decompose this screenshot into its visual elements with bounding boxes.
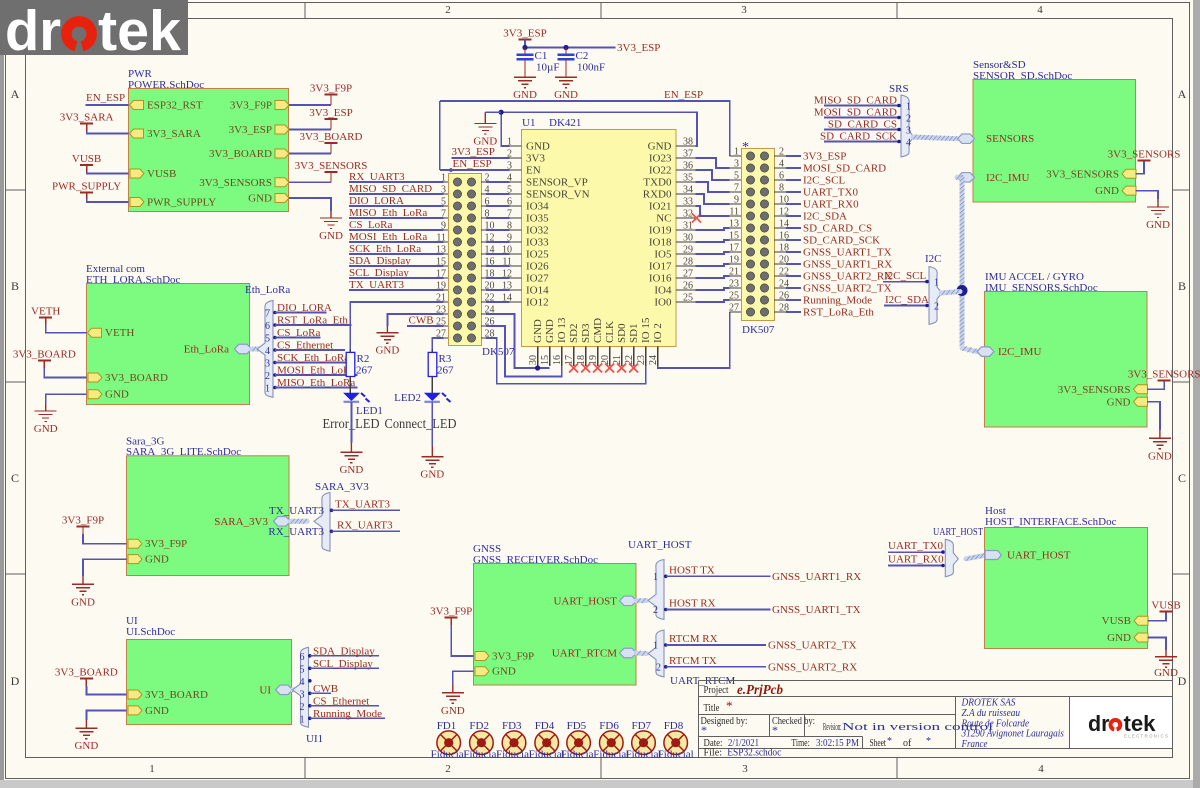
svg-text:1: 1 [653,572,658,583]
wire U1 pin 30 to right header pin 15 [695,240,729,242]
svg-text:C: C [1178,471,1186,485]
wire header pin 16 to U1 pin 11 [486,265,509,267]
harness entry 3 CWB [300,683,339,701]
power port VUSB (Host) [1151,600,1180,612]
capacitor C2 100nF [558,48,606,78]
harness cable I2C to junction [941,292,960,294]
svg-text:3: 3 [300,689,305,700]
svg-text:FD2: FD2 [469,720,489,732]
harness bundle SRS [889,83,914,157]
wire 3V3_SENSORS power [1136,161,1144,174]
svg-text:1: 1 [734,147,739,158]
harness bundle Eth_LoRa [245,284,290,397]
svg-text:GND: GND [105,389,129,401]
connector DK507 (left header) body [449,174,482,346]
svg-text:DK507: DK507 [742,324,775,336]
harness entry 7 DIO_LORA [265,302,332,320]
svg-text:7: 7 [507,209,512,220]
wire EN_ESP to PWR [86,104,129,106]
svg-text:3V3_BOARD: 3V3_BOARD [209,148,272,160]
sheet symbol Host (HOST_INTERFACE.SchDoc) [985,505,1148,649]
svg-text:3V3_ESP: 3V3_ESP [803,151,846,163]
net label 3V3_ESP at U1 pin2 [452,146,510,158]
wire 3V3_SARA [87,131,129,134]
svg-text:*: * [742,140,749,155]
connector DK507 (right header) pin circles [746,152,768,316]
svg-text:I2C_SDA: I2C_SDA [885,294,929,306]
resistor R2 267 [346,349,373,393]
svg-text:GND: GND [248,193,272,205]
sheet entry 3V3_F9P (Sara) [128,538,187,550]
svg-text:4: 4 [300,677,305,688]
svg-text:GND: GND [145,554,169,566]
svg-text:D: D [11,674,20,688]
svg-text:GNSS_UART1_TX: GNSS_UART1_TX [772,604,861,616]
wire GNSS GND [453,671,474,684]
fiducial FD6 [593,720,629,761]
sheet symbol IMU ACCEL / GYRO (IMU_SENSORS.SchDoc) [985,271,1148,427]
wire 3V3_ESP rail [524,40,526,48]
svg-text:SENSORS: SENSORS [986,133,1034,145]
sheet entry 3V3_SARA [130,128,201,140]
svg-text:16: 16 [552,355,563,365]
fiducial FD3 [496,720,532,761]
sheet entry 3V3_SENSORS (IMU) [1058,384,1148,396]
wire header pin27 to R3 [432,338,443,349]
harness cable SRS to SENSORS [913,137,957,139]
svg-text:GND: GND [1146,219,1170,231]
svg-text:FD7: FD7 [632,720,652,732]
svg-text:267: 267 [437,365,454,377]
svg-text:GND: GND [532,319,544,343]
svg-text:UART_TX0: UART_TX0 [888,540,943,552]
harness entry 2 HOST RX / net GNSS_UART1_TX [653,598,861,617]
svg-text:UART_RTCM: UART_RTCM [552,648,618,660]
power port 3V3_SENSORS (Sensor&SD) [1108,149,1181,161]
svg-text:tek: tek [1124,711,1157,736]
ground U1 top GND [473,112,497,147]
svg-text:19: 19 [729,255,739,266]
sheet entry GND (Sensor&SD) [1095,185,1136,197]
svg-text:I2C_SDA: I2C_SDA [803,211,847,223]
svg-text:Running_Mode: Running_Mode [313,708,382,720]
svg-text:3V3: 3V3 [526,153,545,165]
svg-text:4: 4 [1037,4,1043,16]
svg-text:38: 38 [683,137,693,148]
svg-text:3:02:15 PM: 3:02:15 PM [816,738,859,749]
svg-text:25: 25 [436,317,446,328]
wire header pin23 to GND [387,314,443,326]
harness junction dot I2C [957,285,968,296]
svg-text:2: 2 [265,371,270,382]
sheet entry 3V3_SENSORS (right) [199,177,289,189]
svg-text:3V3_F9P: 3V3_F9P [430,606,472,618]
wire UI GND [86,710,126,720]
svg-text:29: 29 [683,245,693,256]
svg-text:TXD0: TXD0 [643,177,672,189]
svg-text:3V3_BOARD: 3V3_BOARD [300,131,363,143]
svg-text:File:: File: [704,748,723,759]
svg-text:4: 4 [265,346,270,357]
svg-text:HOST RX: HOST RX [669,598,716,610]
svg-text:RX_UART3: RX_UART3 [337,519,393,531]
sheet entry PWR_SUPPLY [130,197,216,209]
wire header pin 22 to U1 pin 14 [486,301,509,303]
no-connect X on U1 pins 17-22 [569,364,578,373]
net label Running_Mode / wire from header pin 26 [786,295,872,307]
svg-text:21: 21 [436,293,446,304]
harness entry 2 MOSI_Eth_LoRa [265,365,358,383]
svg-text:6: 6 [779,171,784,182]
wire U1 pin 28 to right header pin 19 [695,264,729,266]
connector DK507 (right header) body [742,149,775,321]
harness bundle SARA_3V3 [314,481,369,551]
wire U1 pin 36 to right header pin 5 [695,170,729,180]
power port 3V3_SENSORS [295,160,368,183]
svg-text:2: 2 [934,302,939,313]
wire PWR 3V3_SENSORS out [289,181,331,183]
svg-text:UART_HOST: UART_HOST [933,526,983,538]
svg-text:SDA_Display: SDA_Display [313,645,375,657]
net label SDA_Display / wire to header pin 15 [349,255,444,267]
wire header pin 14 to U1 pin 10 [486,253,509,255]
svg-text:GND: GND [1107,632,1131,644]
svg-text:31: 31 [683,221,693,232]
wire PWR_SUPPLY [87,199,129,202]
svg-text:SCK_Eth_LoRa: SCK_Eth_LoRa [277,352,349,364]
svg-text:RTCM TX: RTCM TX [669,655,717,667]
svg-text:21: 21 [729,267,739,278]
svg-text:3V3_ESP: 3V3_ESP [503,28,546,40]
wire header pin 12 to U1 pin 9 [486,241,509,243]
svg-text:CS_Ethernet: CS_Ethernet [313,695,369,707]
svg-text:34: 34 [683,185,693,196]
svg-text:3V3_BOARD: 3V3_BOARD [105,372,168,384]
svg-text:DROTEK SAS: DROTEK SAS [961,698,1017,709]
svg-text:4: 4 [1038,763,1044,775]
svg-text:VETH: VETH [105,327,134,339]
power port 3V3_SENSORS (IMU) [1128,369,1200,381]
wire U1 pin 27 to right header pin 21 [695,276,729,278]
wire header pin 8 to U1 pin 7 [486,217,509,219]
wire right header pin27 to U1 IO2 [658,312,730,368]
svg-text:IO 13: IO 13 [556,317,568,343]
sheet symbol Sara_3G (SARA_3G_LITE.SchDoc) [126,436,289,576]
svg-text:2: 2 [656,662,661,673]
svg-text:IO25: IO25 [526,249,549,261]
svg-text:IO21: IO21 [649,201,672,213]
wire header pin 4 to U1 pin 5 [486,193,509,195]
svg-text:Fiducial: Fiducial [658,749,694,761]
harness entry 6 SDA_Display [300,645,380,663]
svg-text:3V3_SENSORS: 3V3_SENSORS [295,160,368,172]
svg-text:SCL_Display: SCL_Display [313,658,373,670]
junction dot pin1 gnd [499,110,504,115]
left header even pin stubs and numbers [481,173,495,340]
harness entry I2C_IMU (IMU) [977,346,1041,358]
svg-text:Running_Mode: Running_Mode [803,295,872,307]
sheet entry 3V3_F9P (right) [230,100,289,112]
sheet entry VUSB (Host) [1102,615,1148,627]
harness entry SARA_3V3 [214,516,290,528]
svg-text:1: 1 [906,102,911,113]
net label MISO_SD_CARD / wire to header pin 3 [349,183,444,195]
svg-text:10µF: 10µF [536,62,559,74]
svg-text:CS_LoRa: CS_LoRa [277,327,321,339]
net label MISO_Eth_LoRa / wire to header pin 7 [349,207,444,219]
svg-text:Checked by:: Checked by: [772,716,815,727]
fiducial FD5 [561,720,597,761]
net label UART_RX0 / harness entry 2 [888,554,954,573]
right header even pin stubs and numbers [774,147,789,314]
harness entry 3 SCK_Eth_LoRa [265,352,351,370]
power port 3V3_BOARD [300,131,363,154]
svg-text:3V3_BOARD: 3V3_BOARD [13,349,76,361]
svg-text:GND: GND [145,705,169,717]
svg-text:TX_UART3: TX_UART3 [335,498,390,510]
resistor R3 267 [428,349,454,393]
power port PWR_SUPPLY [52,180,121,200]
svg-text:GND: GND [1148,450,1172,462]
svg-text:11: 11 [729,207,739,218]
svg-text:3V3_ESP: 3V3_ESP [229,124,272,136]
svg-text:37: 37 [683,149,693,160]
harness entry UI [259,684,292,696]
svg-text:GNSS_UART1_RX: GNSS_UART1_RX [772,571,861,583]
svg-text:EN: EN [526,165,541,177]
svg-text:4: 4 [507,173,512,184]
svg-text:Project: Project [704,685,729,696]
power port 3V3_BOARD [13,349,76,369]
svg-text:IO35: IO35 [526,213,549,225]
net label EN_ESP [86,92,125,104]
wire header pin 10 to U1 pin 8 [486,229,509,231]
sheet entry 3V3_F9P (GNSS) [475,651,534,663]
svg-text:GNSS_UART2_RX: GNSS_UART2_RX [768,661,857,673]
wire U1 pin 25 to right header pin 25 [695,300,729,302]
svg-text:3: 3 [906,126,911,137]
wire U1 pin 37 to right header pin 3 [695,158,729,168]
svg-text:U1: U1 [522,117,535,129]
svg-text:UART_RX0: UART_RX0 [888,554,944,566]
svg-text:UART_HOST: UART_HOST [628,539,692,551]
svg-text:15: 15 [540,355,551,365]
svg-text:GND: GND [492,666,516,678]
svg-text:R3: R3 [439,353,452,365]
harness bundle UI1 [293,647,324,745]
svg-text:5: 5 [734,171,739,182]
ground IMU GND [1148,430,1172,462]
title block logo cell [1070,697,1172,748]
net label CWB [407,315,444,327]
svg-text:27: 27 [729,303,739,314]
svg-text:35: 35 [683,173,693,184]
sheet entry GND [88,389,129,401]
svg-text:IO17: IO17 [649,261,672,273]
ground UI GND [74,720,98,752]
wire header pin24 to U1 GND pins [486,314,550,368]
sheet entry GND (UI) [128,705,169,717]
svg-text:HOST TX: HOST TX [669,564,715,576]
net label RST_LoRa_Eth / wire from header pin 28 [786,307,874,319]
harness entry Eth_LoRa [184,344,252,356]
svg-text:tek: tek [98,0,181,63]
svg-text:2: 2 [445,4,451,16]
svg-text:IO26: IO26 [526,261,549,273]
wire IMU GND [1147,402,1160,430]
harness bundle UART_RTCM [648,630,736,687]
svg-text:PWR_SUPPLY: PWR_SUPPLY [52,180,121,192]
wire header pin21 to R2 [350,302,443,349]
svg-text:3V3_BOARD: 3V3_BOARD [55,667,118,679]
drotek logo (top-left) [0,0,188,55]
svg-text:SRS: SRS [889,83,909,95]
svg-text:GND: GND [648,141,672,153]
svg-text:3: 3 [265,359,270,370]
svg-text:GND: GND [74,740,98,752]
sheet entry 3V3_BOARD [88,372,168,384]
svg-text:I2C_SCL: I2C_SCL [803,175,845,187]
wire 3V3_BOARD [44,368,86,378]
svg-text:IO33: IO33 [526,237,549,249]
svg-text:2: 2 [300,702,305,713]
svg-text:33: 33 [683,197,693,208]
sheet entry GND (Host) [1107,632,1148,644]
left header odd pin stubs and numbers [436,173,448,340]
power port 3V3_F9P [310,83,352,106]
svg-text:dr: dr [1088,711,1110,736]
svg-text:GND: GND [71,596,95,608]
svg-text:UART_RX0: UART_RX0 [803,199,859,211]
svg-text:UART_TX0: UART_TX0 [803,187,858,199]
svg-text:*: * [701,723,707,737]
svg-text:1: 1 [934,278,939,289]
harness entry 3 SD_CARD_CS [824,119,911,137]
sheet entry VUSB [130,168,176,180]
svg-text:7: 7 [734,183,739,194]
svg-text:EN_ESP: EN_ESP [664,89,703,101]
svg-text:30: 30 [528,355,539,365]
svg-text:MOSI_Eth_LoRa: MOSI_Eth_LoRa [277,365,355,377]
svg-text:1: 1 [653,641,658,652]
fiducial FD1 [431,720,467,761]
svg-text:SARA_3V3: SARA_3V3 [315,481,369,493]
wire PWR 3V3_ESP out [289,129,331,131]
net label TX_UART3 / wire to header pin 19 [349,279,444,291]
wire U1 pin 31 to right header pin 13 [695,228,729,230]
svg-text:12: 12 [502,269,512,280]
harness cable to IMU I2C_IMU [962,348,977,352]
svg-text:IO 2: IO 2 [652,323,664,343]
sheet entry 3V3_ESP (right) [229,124,289,136]
svg-text:Fiducial: Fiducial [431,749,467,761]
svg-text:ESP32_RST: ESP32_RST [147,100,203,112]
svg-text:of: of [903,738,912,749]
svg-text:Eth_LoRa: Eth_LoRa [245,284,290,296]
ground Sensor&SD GND [1146,199,1170,231]
svg-text:I2C_IMU: I2C_IMU [986,172,1029,184]
svg-text:SD_CARD_CS: SD_CARD_CS [803,223,872,235]
harness entry 4 CS_Ethernet [265,340,345,358]
net label EN_ESP at U1 pin3 [449,158,492,172]
svg-text:IO18: IO18 [649,237,672,249]
svg-text:*: * [726,698,733,713]
wire Sara 3V3_F9P [83,534,127,544]
harness cable UI [293,687,299,692]
svg-text:dr: dr [5,0,61,63]
svg-text:5: 5 [265,334,270,345]
harness bundle UART_HOST (Host) [933,526,983,577]
svg-text:3: 3 [741,4,747,16]
wire U1 pin 34 to right header pin 9 [695,194,729,204]
svg-text:CWB: CWB [409,315,434,327]
svg-text:VUSB: VUSB [1151,600,1180,612]
harness cable Eth_LoRa [252,347,263,352]
svg-text:Fiducial: Fiducial [561,749,597,761]
svg-text:RST_LoRa_Eth: RST_LoRa_Eth [803,307,874,319]
svg-text:Connect_LED: Connect_LED [385,417,457,432]
svg-text:EN_ESP: EN_ESP [453,158,492,170]
net label UART_TX0 / harness entry 1 [888,540,954,559]
sheet entry ESP32_RST [130,100,203,112]
svg-text:25: 25 [683,293,693,304]
svg-text:TX_UART3: TX_UART3 [269,505,324,517]
module U1 DK421 body [522,117,677,347]
svg-text:IO12: IO12 [526,297,549,309]
harness entry 2 MOSI_SD_CARD [814,107,911,125]
sheet entry GND (Sara) [128,554,169,566]
power port 3V3_BOARD (UI) [55,667,118,687]
harness entry UART_HOST (Host) [985,549,1071,561]
svg-text:PWR_SUPPLY: PWR_SUPPLY [147,197,216,209]
svg-text:GNSS_UART2_TX: GNSS_UART2_TX [768,640,857,652]
wire VUSB [87,172,129,174]
net label GNSS_UART2_TX / wire from header pin 24 [786,283,892,295]
junction dots 3V3_ESP rail [522,45,527,50]
harness entry 4 SD_CARD_SCK [820,131,911,149]
ground C1 GND [514,77,536,88]
svg-text:SD2: SD2 [568,323,580,343]
svg-text:UART_HOST: UART_HOST [1007,549,1071,561]
svg-text:8: 8 [507,221,512,232]
svg-text:UI: UI [259,684,271,696]
svg-text:3: 3 [734,159,739,170]
drotek logo (title block) [1088,711,1169,739]
wire Host GND [1148,638,1167,651]
svg-text:1: 1 [149,763,155,775]
svg-text:CMD: CMD [592,318,604,343]
net label CS_LoRa / wire to header pin 9 [349,219,444,231]
wire header pin26 to U1 IO13 [486,326,562,376]
svg-text:DK421: DK421 [549,117,581,129]
svg-text:Fiducial: Fiducial [463,749,499,761]
svg-text:3V3_F9P: 3V3_F9P [230,100,272,112]
ground header pin23 GND [375,326,399,357]
net label UART_RX0 / wire from header pin 10 [786,199,859,211]
wire gnd stub left [485,111,501,113]
svg-text:EN_ESP: EN_ESP [86,92,125,104]
net label SD_CARD_SCK / wire from header pin 16 [786,235,880,247]
svg-text:FD6: FD6 [599,720,619,732]
harness entry TX_UART3 [269,498,400,517]
svg-text:3V3_SENSORS: 3V3_SENSORS [1058,384,1131,396]
svg-text:3V3_F9P: 3V3_F9P [492,651,534,663]
harness cable I2C_IMU vertical [957,175,962,180]
harness entry SENSORS [958,133,1035,145]
svg-text:IO34: IO34 [526,201,549,213]
net label GNSS_UART1_RX / wire from header pin 20 [786,259,892,271]
svg-text:RX_UART3: RX_UART3 [268,526,324,538]
